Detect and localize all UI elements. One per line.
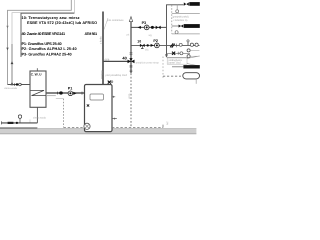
svg-text:z kotła: z kotła: [100, 36, 103, 44]
thermometer: [187, 42, 189, 46]
valve on P3 line: [156, 26, 159, 30]
radiator 1 valve: [184, 2, 187, 5]
dashed floor line: [64, 127, 164, 129]
boiler fan: [84, 123, 90, 129]
svg-text:35c: 35c: [145, 49, 150, 52]
small circle valve: [19, 83, 22, 86]
floor return line: [167, 52, 191, 54]
boiler safety valve cluster: [108, 81, 111, 84]
manifold outlet 2: [195, 43, 198, 46]
union on riser upper: [130, 53, 133, 54]
arrow: [151, 44, 154, 47]
tank top stub: [36, 68, 38, 71]
arrow after P1: [73, 92, 76, 95]
supply riser right: [167, 5, 184, 57]
return line 2: [172, 33, 200, 35]
svg-text:10: 10: [137, 40, 141, 44]
bottom feed pipe: [2, 122, 38, 124]
drain valve on boiler left: [87, 104, 89, 106]
floor loop feed: [172, 66, 183, 68]
arrow down on pipe A upper: [6, 26, 8, 29]
manifold diagonal valves: [170, 43, 175, 47]
union tick: [57, 92, 59, 95]
riser to valve 40: [130, 21, 132, 73]
dot: [147, 44, 149, 46]
svg-text:40: 40: [122, 56, 127, 61]
svg-text:P2: P2: [153, 39, 158, 43]
arrow up on pipe B at junction: [11, 82, 14, 85]
expansion vessel pill: [183, 73, 200, 79]
boiler flue pipe: [102, 12, 104, 85]
floor heating callout box: [167, 56, 188, 58]
valve 40 three-way: [128, 60, 132, 64]
radiator 2: [184, 24, 200, 28]
svg-text:poł. kominowe: poł. kominowe: [108, 19, 125, 22]
outlined up arrow on riser: [129, 17, 132, 22]
dot: [16, 122, 18, 124]
tank bottom stub: [36, 107, 38, 123]
dot: [16, 83, 18, 85]
floor heating bar: [183, 65, 199, 68]
union at boiler: [81, 92, 83, 95]
pipe B riser cold water: [11, 44, 13, 85]
svg-text:ATM 561: ATM 561: [85, 32, 98, 36]
dashed boiler room boundary left: [63, 99, 65, 128]
safety valve on stem: [19, 118, 21, 123]
svg-text:C.W.U: C.W.U: [31, 72, 42, 76]
wall outline pipe pair top-left: [8, 0, 72, 85]
arrow up on pipe B: [11, 61, 14, 64]
check valve dot: [59, 91, 63, 94]
check valve dot: [151, 26, 154, 29]
svg-text:wg: wg: [149, 34, 153, 37]
svg-text:zimna woda: zimna woda: [4, 87, 17, 90]
tick: [176, 44, 178, 48]
radiator 1: [189, 2, 200, 6]
svg-text:dn25: dn25: [128, 93, 131, 99]
svg-text:pod posadzką 16x2: pod posadzką 16x2: [106, 74, 128, 77]
air vent stem: [176, 5, 178, 10]
svg-text:zimna woda: zimna woda: [33, 117, 46, 120]
circle: [180, 52, 183, 55]
radiator 2 valve: [179, 25, 181, 28]
boiler right stub lower: [112, 118, 117, 120]
inline valve block: [8, 122, 14, 124]
tank coil: [31, 90, 47, 95]
svg-text:10- Termostatyczny zaw. miesz: 10- Termostatyczny zaw. miesz: [22, 16, 80, 20]
CWU tank: [30, 71, 46, 107]
svg-text:P2- Grundfos ALPHA2 L 25-40: P2- Grundfos ALPHA2 L 25-40: [22, 47, 77, 51]
leader line note: [104, 18, 108, 30]
svg-text:P1: P1: [68, 87, 73, 91]
arrow on P3 line: [138, 26, 141, 29]
svg-text:+ łazienka 1p: + łazienka 1p: [173, 19, 188, 22]
svg-text:przejście przez strop: przejście przez strop: [136, 62, 160, 65]
union on riser lower: [130, 66, 133, 67]
arrow down on pipe A lower: [6, 48, 8, 51]
dashed riser continuation: [130, 73, 132, 127]
legend text block: [22, 16, 98, 56]
svg-text:40- Zawór 40 ESBE VRG141: 40- Zawór 40 ESBE VRG141: [22, 32, 66, 36]
svg-text:pk: pk: [127, 34, 130, 37]
svg-text:P1- Grundfos UPS 25-40: P1- Grundfos UPS 25-40: [22, 42, 62, 46]
svg-text:parter 16x2: parter 16x2: [168, 62, 181, 65]
P2 line / floor heating supply: [131, 44, 200, 46]
manifold outlet 1: [190, 43, 193, 46]
union on supply riser: [165, 55, 168, 56]
radiator 2 feed: [172, 25, 184, 27]
svg-text:2%: 2%: [166, 122, 169, 126]
svg-text:P3: P3: [142, 21, 147, 25]
svg-text:ESBE VTA 572 (20-43stC) lub A: ESBE VTA 572 (20-43stC) lub AFRISO: [27, 21, 97, 25]
dashed boundary right: [162, 57, 164, 80]
dashed wall drop: [171, 5, 173, 34]
P3 line: [131, 26, 167, 28]
tick: [14, 83, 16, 86]
return line 1: [172, 12, 200, 14]
dashed line to vessel: [163, 75, 181, 77]
boiler: [85, 85, 113, 132]
P1 pipe: [46, 92, 85, 94]
X valve on return: [172, 52, 175, 55]
floor slab: [0, 128, 196, 133]
small circle: [179, 43, 182, 46]
air vent 2: [175, 31, 178, 34]
svg-text:P3- Grundfos ALPHA2 25-40: P3- Grundfos ALPHA2 25-40: [22, 53, 72, 57]
branch pipe to valve 40: [103, 60, 131, 62]
coil return stub: [46, 95, 56, 97]
boiler right stub upper: [112, 96, 115, 98]
tick: [177, 52, 179, 55]
boiler display window: [90, 94, 103, 100]
svg-text:Ø28mm: Ø28mm: [100, 71, 103, 80]
stacked outlets: [187, 49, 190, 52]
tank inlet pipe: [8, 84, 31, 86]
legend box border: [21, 13, 74, 57]
